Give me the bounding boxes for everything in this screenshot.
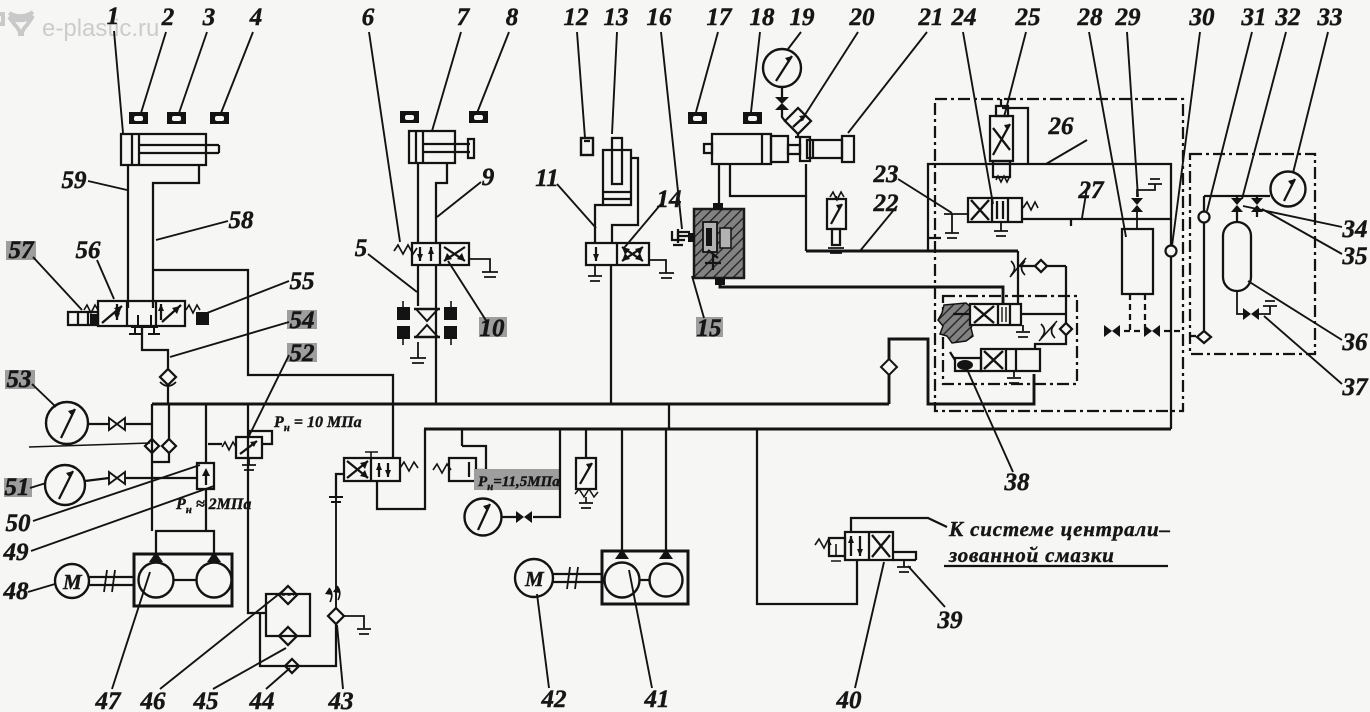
svg-text:37: 37 — [1342, 374, 1370, 401]
svg-text:29: 29 — [1115, 4, 1142, 31]
svg-text:21: 21 — [918, 4, 944, 31]
svg-text:Pн ≈ 2МПа: Pн ≈ 2МПа — [175, 496, 251, 516]
svg-text:27: 27 — [1078, 177, 1106, 204]
svg-text:32: 32 — [1275, 4, 1301, 31]
svg-text:52: 52 — [290, 340, 315, 367]
svg-text:38: 38 — [1004, 469, 1031, 496]
svg-text:41: 41 — [644, 686, 670, 712]
svg-text:42: 42 — [541, 686, 567, 712]
svg-text:7: 7 — [457, 4, 471, 31]
svg-text:M: M — [524, 567, 545, 591]
svg-text:Pн = 10 МПа: Pн = 10 МПа — [273, 414, 362, 434]
svg-text:28: 28 — [1077, 4, 1104, 31]
svg-text:e-plastic.ru: e-plastic.ru — [42, 15, 159, 42]
svg-text:55: 55 — [290, 268, 315, 295]
svg-text:3: 3 — [202, 4, 216, 31]
svg-text:48: 48 — [3, 578, 30, 605]
svg-text:9: 9 — [482, 164, 495, 191]
svg-text:20: 20 — [849, 4, 876, 31]
svg-text:10: 10 — [480, 315, 506, 342]
svg-text:M: M — [62, 570, 83, 594]
svg-text:12: 12 — [564, 4, 589, 31]
svg-text:54: 54 — [290, 307, 315, 334]
svg-text:35: 35 — [1342, 243, 1368, 270]
svg-text:58: 58 — [229, 207, 255, 234]
svg-text:13: 13 — [604, 4, 629, 31]
svg-text:51: 51 — [5, 474, 30, 501]
svg-text:зованной смазки: зованной смазки — [948, 543, 1115, 567]
svg-text:34: 34 — [1342, 216, 1368, 243]
svg-text:17: 17 — [707, 4, 734, 31]
svg-text:23: 23 — [873, 161, 899, 188]
svg-text:59: 59 — [62, 167, 88, 194]
svg-text:26: 26 — [1048, 113, 1075, 140]
svg-text:К системе централи–: К системе централи– — [948, 517, 1171, 541]
svg-text:18: 18 — [750, 4, 776, 31]
svg-text:2: 2 — [161, 4, 175, 31]
svg-text:6: 6 — [362, 4, 375, 31]
svg-text:31: 31 — [1241, 4, 1267, 31]
svg-text:8: 8 — [506, 4, 519, 31]
svg-text:19: 19 — [790, 4, 816, 31]
svg-text:5: 5 — [355, 235, 368, 262]
svg-text:4: 4 — [249, 4, 263, 31]
svg-text:11: 11 — [535, 165, 559, 192]
svg-text:50: 50 — [6, 510, 32, 537]
svg-text:40: 40 — [836, 687, 863, 712]
svg-text:33: 33 — [1317, 4, 1343, 31]
svg-text:57: 57 — [9, 237, 36, 264]
svg-text:49: 49 — [3, 539, 30, 566]
svg-text:24: 24 — [951, 4, 977, 31]
svg-text:25: 25 — [1015, 4, 1041, 31]
svg-text:16: 16 — [647, 4, 673, 31]
svg-text:15: 15 — [697, 315, 722, 342]
svg-text:22: 22 — [873, 190, 899, 217]
svg-text:47: 47 — [95, 688, 123, 712]
svg-text:44: 44 — [249, 688, 275, 712]
svg-text:53: 53 — [7, 366, 32, 393]
svg-text:45: 45 — [193, 688, 219, 712]
svg-text:43: 43 — [328, 688, 354, 712]
svg-text:14: 14 — [657, 186, 682, 213]
svg-text:36: 36 — [1342, 329, 1369, 356]
svg-text:30: 30 — [1189, 4, 1216, 31]
svg-text:39: 39 — [937, 607, 964, 634]
svg-text:1: 1 — [107, 3, 120, 30]
svg-text:46: 46 — [140, 688, 167, 712]
